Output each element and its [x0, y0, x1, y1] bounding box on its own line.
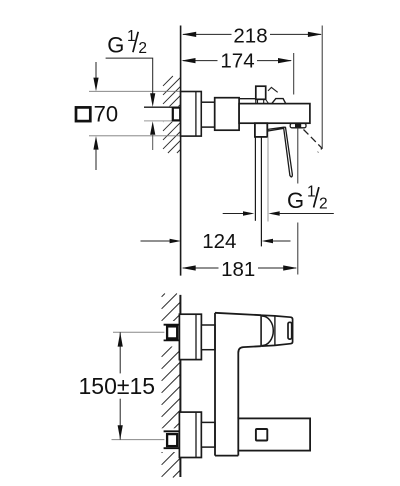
white clearing around bottom nut — [161, 428, 180, 452]
barrel body — [239, 104, 310, 124]
bottom union nut flanges — [164, 430, 180, 432]
supply pipe top edge — [144, 106, 173, 108]
handle grip left line — [260, 315, 262, 346]
svg-text:70: 70 — [94, 102, 118, 127]
wall hatch strip bottom drawing — [162, 294, 181, 478]
wall face line bottom drawing — [179, 295, 181, 477]
dimension 174 left arrow — [181, 58, 195, 63]
bottom escutcheon — [179, 412, 201, 457]
top union nut flanges — [164, 324, 180, 326]
wall hatch top drawing — [163, 76, 180, 153]
top escutcheon — [179, 314, 201, 359]
bottom union nut — [167, 434, 177, 446]
extension line 150 bottom — [112, 439, 165, 441]
G1/2 leader line — [106, 58, 153, 98]
dashed lever position — [304, 130, 323, 153]
handle mid line — [274, 316, 276, 346]
dimension 124 right arrow (outside) — [262, 239, 273, 244]
70 lower arrow (up) — [93, 136, 98, 150]
svg-text:G: G — [107, 33, 124, 58]
svg-text:G: G — [287, 188, 304, 213]
G1/2 lower arrow (up) — [150, 121, 155, 135]
70 extension line bottom — [89, 135, 180, 137]
valve block — [215, 98, 239, 131]
150 dim line with arrows — [119, 332, 121, 373]
dimension 181 right arrow — [283, 265, 297, 270]
escutcheon plate — [181, 92, 202, 137]
svg-text:2: 2 — [138, 40, 147, 57]
lever grip wedge — [272, 99, 286, 104]
top adapter — [201, 325, 215, 350]
dimension 181 line — [183, 267, 296, 269]
G1/2 upper arrow (down) — [150, 93, 155, 107]
white clearing around top nut — [161, 321, 180, 347]
nipple G1/2 dim right arrow — [268, 211, 279, 215]
movement dash arc — [268, 87, 278, 92]
handle D arc — [262, 316, 273, 346]
nipple G1/2 dim left arrow — [223, 213, 244, 215]
handle slot — [288, 322, 292, 339]
hose nipple right edge — [267, 137, 269, 222]
bottom adapter — [201, 422, 215, 447]
escutcheon inner line — [195, 92, 197, 137]
svg-text:1: 1 — [307, 183, 316, 200]
dimension 174 right arrow — [278, 58, 292, 63]
spout inner square — [256, 429, 267, 441]
hose nipple left edge — [254, 137, 256, 221]
square 70 symbol — [76, 107, 90, 121]
extension line for 181 — [297, 128, 299, 184]
svg-text:150±15: 150±15 — [79, 373, 156, 399]
dip line — [266, 100, 269, 104]
svg-text:124: 124 — [202, 230, 236, 253]
white clearing for supply pipe through wall — [144, 106, 181, 122]
dimension 218 left arrow — [182, 32, 196, 37]
knob stem — [257, 99, 259, 103]
mousseur dark center — [295, 124, 301, 128]
dimension 181 left arrow — [182, 265, 196, 270]
extension line 150 top — [113, 331, 164, 333]
supply pipe bottom edge — [144, 120, 173, 122]
handle cap outline — [261, 315, 293, 346]
diverter knob — [256, 86, 266, 99]
top union nut — [167, 326, 177, 338]
70 upper arrow (down) — [95, 62, 97, 80]
extension line for 174 — [293, 53, 295, 95]
extension line for 218 — [321, 26, 323, 149]
svg-text:2: 2 — [319, 195, 328, 212]
pipe wall fitting — [173, 108, 180, 121]
arm bottom with fillet — [238, 346, 261, 352]
dimension 218 line — [183, 33, 321, 35]
connector neck — [201, 102, 214, 127]
svg-text:218: 218 — [233, 24, 267, 47]
svg-text:174: 174 — [220, 50, 254, 73]
shower outlet block — [255, 123, 267, 137]
faucet body vertical — [215, 313, 238, 456]
dimension 218 right arrow — [308, 32, 322, 37]
svg-text:181: 181 — [221, 258, 255, 281]
dimension 124 left arrow (outside) — [141, 240, 171, 242]
spout — [238, 418, 310, 450]
body top edge sloping — [215, 313, 261, 315]
70 extension line top — [89, 90, 180, 92]
raised top section — [239, 98, 256, 100]
wall face line — [180, 26, 182, 276]
dimension 174 line — [183, 60, 291, 62]
mousseur outline — [290, 124, 306, 128]
svg-text:1: 1 — [127, 28, 136, 45]
solid lever — [268, 127, 292, 177]
hose nipple center line — [260, 137, 262, 247]
